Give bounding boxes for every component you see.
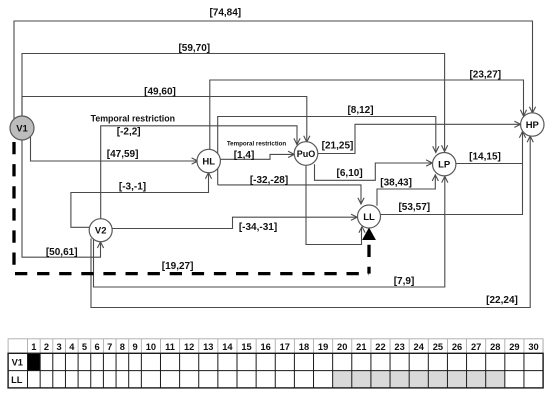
svg-text:5: 5 (82, 342, 87, 352)
label [23,27] (469, 69, 501, 80)
wire edge V1-V2 [50,61] (22, 140, 104, 257)
svg-text:26: 26 (452, 342, 462, 352)
svg-text:25: 25 (433, 342, 443, 352)
label [8,12] (347, 105, 373, 116)
svg-text:29: 29 (509, 342, 519, 352)
svg-text:[47,59]: [47,59] (107, 149, 139, 160)
wire edge HL-HP [23,27] (210, 80, 527, 150)
label [-2,2] (117, 126, 141, 137)
wire edge V1-HL [47,59] (31, 136, 198, 164)
wire edge V2-LL [-34,-31] (112, 214, 357, 228)
label [-34,-31] (239, 222, 277, 233)
svg-text:[22,24]: [22,24] (486, 295, 518, 306)
label [47,59] (107, 149, 139, 160)
wire edge LL-HP [53,57] (380, 132, 525, 215)
label [1,4] (234, 150, 255, 161)
node PuO (294, 142, 318, 166)
wire edge V2-PuO temporal restriction [-2,2] (101, 126, 300, 219)
label [14,15] (469, 152, 501, 163)
label Temporal restriction small (227, 140, 287, 147)
svg-text:18: 18 (299, 342, 309, 352)
wire edge HL-LP [8,12] (218, 117, 439, 185)
schedule table (8, 339, 543, 388)
svg-text:[23,27]: [23,27] (469, 69, 501, 80)
wire edge V1-HP [74,84] (14, 21, 536, 119)
label [22,24] (486, 295, 518, 306)
svg-text:19: 19 (318, 342, 328, 352)
svg-text:Temporal restriction: Temporal restriction (227, 140, 287, 147)
svg-text:[-3,-1]: [-3,-1] (119, 182, 146, 193)
wire edge LL-LP [38,43] (377, 175, 438, 206)
svg-text:30: 30 (528, 342, 538, 352)
svg-text:[49,60]: [49,60] (144, 86, 176, 97)
svg-text:LP: LP (438, 160, 451, 171)
label [74,84] (209, 8, 241, 19)
svg-text:27: 27 (471, 342, 481, 352)
svg-text:21: 21 (356, 342, 366, 352)
wire edge V1-PuO [49,60] (22, 97, 310, 143)
label [-3,-1] (119, 182, 146, 193)
node HL (197, 149, 220, 172)
svg-text:17: 17 (280, 342, 290, 352)
svg-text:LL: LL (363, 212, 375, 223)
svg-text:[-34,-31]: [-34,-31] (239, 222, 277, 233)
wire edge V1-LP [59,70] (22, 54, 448, 152)
svg-text:[21,25]: [21,25] (322, 140, 354, 151)
svg-text:11: 11 (165, 342, 175, 352)
label [19,27] (162, 261, 194, 272)
svg-text:V2: V2 (95, 226, 107, 237)
svg-text:Temporal restriction: Temporal restriction (91, 113, 175, 123)
svg-text:[14,15]: [14,15] (469, 152, 501, 163)
svg-text:[59,70]: [59,70] (178, 43, 210, 54)
label Temporal restriction (91, 113, 175, 123)
svg-text:[53,57]: [53,57] (398, 202, 430, 213)
label [53,57] (398, 202, 430, 213)
svg-text:V1: V1 (16, 123, 28, 134)
svg-text:3: 3 (57, 342, 62, 352)
svg-text:[-32,-28]: [-32,-28] (250, 175, 288, 186)
svg-text:14: 14 (222, 342, 233, 352)
svg-text:13: 13 (203, 342, 213, 352)
label [50,61] (46, 247, 78, 258)
wire edge V2-LP [7,9] (94, 176, 448, 287)
wire edge HL-LL [-32,-28] (218, 185, 364, 204)
svg-text:24: 24 (414, 342, 425, 352)
svg-text:[19,27]: [19,27] (162, 261, 194, 272)
label [38,43] (380, 178, 412, 189)
svg-text:[6,10]: [6,10] (337, 168, 363, 179)
wire dashed edge V1-LL [19,27] (14, 142, 376, 274)
svg-text:[8,12]: [8,12] (347, 105, 373, 116)
node V2 (89, 219, 112, 242)
svg-text:2: 2 (44, 342, 49, 352)
svg-text:8: 8 (120, 342, 125, 352)
svg-text:[7,9]: [7,9] (394, 276, 415, 287)
svg-text:23: 23 (394, 342, 404, 352)
wire edge V2-HP [22,24] (91, 136, 533, 308)
svg-text:20: 20 (337, 342, 347, 352)
svg-text:7: 7 (107, 342, 112, 352)
label [59,70] (178, 43, 210, 54)
svg-text:V1: V1 (12, 358, 23, 368)
svg-text:4: 4 (69, 342, 75, 352)
svg-text:10: 10 (146, 342, 156, 352)
svg-text:[-2,2]: [-2,2] (117, 126, 141, 137)
label [7,9] (394, 276, 415, 287)
label [21,25] (322, 140, 354, 151)
wire edge PuO-LL (306, 165, 365, 244)
node HP (521, 113, 544, 136)
svg-text:[74,84]: [74,84] (209, 8, 241, 19)
svg-text:HP: HP (526, 120, 540, 131)
svg-text:PuO: PuO (297, 149, 316, 159)
label [-32,-28] (250, 175, 288, 186)
svg-text:[38,43]: [38,43] (380, 178, 412, 189)
svg-text:1: 1 (31, 342, 36, 352)
node V1 (10, 116, 34, 140)
wire edge LP-HP [14,15] (456, 163, 523, 165)
svg-text:15: 15 (241, 342, 251, 352)
node LP (433, 153, 456, 176)
label [6,10] (337, 168, 363, 179)
svg-text:6: 6 (94, 342, 99, 352)
wire edge HL-PuO temporal restriction [1,4] (220, 151, 294, 159)
wire edge PuO-HP [21,25] (318, 121, 521, 153)
svg-text:9: 9 (132, 342, 137, 352)
svg-text:HL: HL (202, 156, 215, 167)
svg-text:28: 28 (490, 342, 500, 352)
label [49,60] (144, 86, 176, 97)
svg-text:22: 22 (375, 342, 385, 352)
wire edge PuO-LP [6,10] (315, 160, 433, 180)
svg-text:12: 12 (184, 342, 194, 352)
svg-text:[1,4]: [1,4] (234, 150, 255, 161)
node LL (358, 205, 381, 228)
wire edge V2-HL [-3,-1] (71, 173, 212, 228)
svg-text:16: 16 (261, 342, 271, 352)
svg-text:[50,61]: [50,61] (46, 247, 78, 258)
svg-text:LL: LL (11, 375, 23, 385)
